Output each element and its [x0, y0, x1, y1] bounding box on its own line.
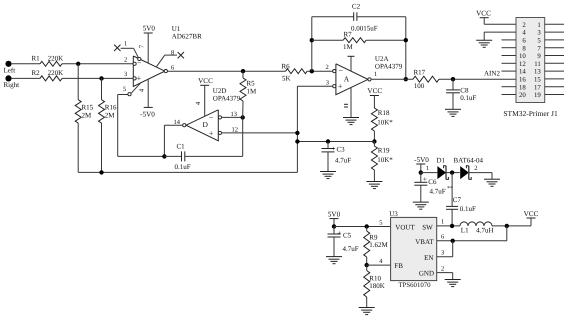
node junction 5V0/C5 [332, 224, 336, 228]
pin 3 of U2A [326, 80, 336, 88]
ground below C8 [445, 109, 461, 116]
capacitor C8 0.1uF [446, 79, 476, 109]
pin 11 stub to ground below U2A [344, 87, 351, 118]
svg-text:5V0: 5V0 [143, 25, 156, 33]
pin 2 of U1 [124, 57, 136, 66]
connector J1 body [516, 18, 545, 103]
svg-text:−: − [209, 113, 214, 122]
svg-text:13: 13 [231, 111, 238, 118]
svg-text:180K: 180K [369, 282, 385, 290]
capacitor C5 4.7uF [328, 227, 359, 257]
diode D1 labels [437, 156, 484, 164]
node junction -5V0/C6 [419, 170, 423, 174]
svg-text:+: + [137, 73, 142, 83]
node junction C8 tap [451, 77, 455, 81]
pin 2 of D1 [474, 165, 477, 172]
connector J1 pin numbers [519, 22, 541, 99]
wire Right to R2 [11, 77, 40, 79]
svg-text:+: + [331, 144, 335, 153]
svg-text:7: 7 [537, 45, 541, 52]
power -5V0 at D1 [414, 156, 429, 173]
svg-text:5: 5 [123, 86, 126, 93]
svg-text:C2: C2 [352, 3, 361, 11]
inductor L1 4.7uH [460, 222, 494, 235]
pin 5 of U3 [379, 219, 382, 226]
wire U2D output down to bias node [164, 125, 182, 156]
power 5V0 bottom [328, 211, 341, 227]
resistor R17 100 [413, 69, 439, 90]
wire VBAT loop [437, 226, 507, 241]
svg-text:SW: SW [422, 223, 433, 231]
svg-text:1: 1 [124, 41, 127, 48]
wire feedback left vertical [311, 17, 313, 71]
svg-text:3: 3 [441, 250, 444, 257]
svg-text:R17: R17 [414, 69, 426, 77]
svg-text:−: − [339, 66, 344, 75]
pin 6 of U3 [441, 234, 445, 241]
pin 2 of U2A [326, 64, 336, 73]
svg-text:OPA4379: OPA4379 [375, 62, 403, 70]
resistor R2 220K [32, 69, 64, 81]
power VCC above R18 [367, 87, 382, 108]
pin 2 of U3 [441, 265, 444, 272]
svg-text:0.1uF: 0.1uF [460, 94, 476, 102]
node junction pin12/rail [295, 131, 299, 135]
wire pin3 to bias rail [297, 85, 332, 87]
svg-text:-5V0: -5V0 [140, 111, 155, 119]
svg-text:2M: 2M [82, 112, 93, 120]
resistor R6 5K [282, 62, 308, 82]
svg-text:2: 2 [124, 57, 127, 64]
svg-text:8: 8 [171, 49, 174, 56]
svg-text:BAT64-04: BAT64-04 [454, 156, 484, 164]
wire C2 left [312, 16, 354, 18]
svg-text:U3: U3 [389, 210, 398, 218]
node Right input terminal [4, 75, 20, 89]
wire U3 GND to ground [437, 273, 453, 280]
node junction pin13/R5 [241, 115, 245, 119]
node junction R7 left [310, 38, 314, 42]
ground below C5 [326, 257, 342, 264]
diode D1a [437, 166, 448, 180]
node junction feedback left [310, 69, 314, 73]
node junction feedback right [404, 77, 408, 81]
svg-text:2: 2 [441, 265, 444, 272]
svg-text:2M: 2M [105, 112, 116, 120]
node junction L1/VBAT [505, 224, 509, 228]
pin 6 of U1 output [164, 65, 175, 73]
svg-text:1: 1 [537, 22, 540, 29]
svg-text:AIN2: AIN2 [484, 70, 500, 78]
svg-text:20: 20 [519, 92, 526, 99]
node junction R9/R10 FB [365, 263, 369, 267]
net label AIN2 [484, 70, 500, 78]
pin 4 of U2D [195, 101, 202, 105]
svg-text:5V0: 5V0 [328, 211, 341, 219]
diode D1b [460, 166, 471, 180]
wire 5V0 to U3 VOUT [334, 226, 391, 228]
svg-text:2: 2 [474, 165, 477, 172]
wire Left to R1 [11, 63, 40, 65]
op-amp U2D labels [213, 87, 241, 102]
resistor R18 10K* [371, 108, 393, 142]
svg-text:10K*: 10K* [377, 119, 393, 127]
svg-text:A: A [344, 75, 350, 84]
wire bottom bias rail [78, 86, 297, 172]
IC U3 TPS601070 body [391, 217, 437, 280]
resistor R1 220K [32, 54, 64, 66]
ground below R19 [366, 182, 382, 189]
pin 8 of U1 no-connect [157, 49, 185, 66]
ground below U2A [343, 118, 359, 125]
svg-text:12: 12 [519, 61, 526, 68]
wire pin12 to bias rail [222, 132, 298, 134]
wire C1 to pin13 node [185, 117, 242, 156]
resistor R7 1M [312, 30, 406, 51]
wire C2 right [357, 16, 406, 18]
svg-text:0.0015uF: 0.0015uF [351, 24, 378, 32]
svg-text:+: + [209, 128, 214, 138]
resistor R16 2M [99, 78, 117, 172]
svg-text:14: 14 [519, 69, 526, 76]
svg-text:2: 2 [522, 22, 526, 29]
op-amp U1 AD627BR triangle [133, 56, 165, 86]
svg-text:4.7uF: 4.7uF [343, 245, 359, 253]
node junction R16/rail [99, 170, 103, 174]
svg-text:6: 6 [441, 234, 445, 241]
node junction C3 tap [326, 139, 330, 143]
pin 12 of U2D [218, 126, 238, 134]
svg-text:VCC: VCC [524, 210, 539, 218]
power -5V0 below U1 [140, 107, 155, 118]
svg-text:15: 15 [534, 77, 541, 84]
svg-text:OPA4379: OPA4379 [213, 95, 241, 103]
svg-text:11: 11 [534, 61, 541, 68]
svg-text:8: 8 [522, 45, 526, 52]
node junction R2/R16 [99, 76, 103, 80]
svg-text:VBAT: VBAT [415, 238, 434, 246]
op-amp U2D OPA4379 triangle [186, 110, 218, 141]
svg-text:D1: D1 [437, 156, 446, 164]
wire -5V0 to D1a [421, 172, 438, 174]
svg-text:R5: R5 [247, 80, 256, 88]
svg-text:GND: GND [419, 270, 434, 278]
svg-text:4: 4 [139, 88, 146, 92]
svg-text:5: 5 [379, 219, 382, 226]
svg-text:3: 3 [326, 80, 329, 87]
ground at J1 pin4 [476, 40, 492, 47]
op-amp U2A labels [375, 55, 403, 70]
wire U1 negative supply [147, 79, 149, 108]
wire D1b to ground [468, 173, 492, 180]
power VCC above U2D [198, 77, 213, 117]
svg-text:EN: EN [424, 254, 433, 262]
svg-text:VCC: VCC [198, 77, 213, 85]
svg-text:R18: R18 [378, 109, 390, 117]
svg-text:220K: 220K [48, 54, 64, 62]
svg-text:AD627BR: AD627BR [172, 33, 202, 41]
pin 13 of U2D [218, 111, 237, 119]
pin 4 of U3 [379, 258, 383, 265]
node junction R9 top [365, 224, 369, 228]
wire J1 pin4 to ground [484, 32, 516, 40]
svg-text:R2: R2 [32, 69, 41, 77]
capacitor C6 4.7uF [414, 173, 453, 203]
resistor R19 10K* [371, 142, 393, 182]
resistor R15 2M [75, 64, 93, 173]
wire U2A output net AIN2 [371, 78, 516, 80]
svg-text:17: 17 [534, 84, 541, 91]
svg-text:1: 1 [441, 219, 444, 226]
svg-text:10: 10 [519, 53, 526, 60]
power VCC above J1 [476, 9, 516, 24]
svg-text:VCC: VCC [476, 9, 491, 17]
wire R6 to U2A pin2 [307, 70, 334, 72]
node junction C7 tap [450, 170, 454, 174]
ground after D1 [484, 179, 500, 186]
svg-text:L1: L1 [461, 227, 469, 235]
pin 1 of D1 [426, 165, 429, 172]
pin 1 of U3 [441, 219, 444, 226]
svg-text:2: 2 [326, 64, 329, 71]
svg-text:C5: C5 [343, 231, 352, 239]
ground below C6 [413, 202, 429, 209]
svg-text:R10: R10 [369, 274, 381, 282]
wire EN to VBAT [437, 241, 453, 257]
svg-text:R1: R1 [32, 54, 41, 62]
svg-text:1.62M: 1.62M [369, 241, 388, 249]
svg-text:1: 1 [374, 71, 377, 78]
svg-text:Right: Right [4, 81, 20, 89]
svg-text:C6: C6 [428, 178, 437, 186]
ground below C3 [320, 172, 336, 179]
svg-text:R6: R6 [282, 62, 291, 70]
op-amp U1 labels [172, 25, 202, 41]
svg-text:0.1uF: 0.1uF [175, 163, 191, 171]
svg-text:1M: 1M [343, 43, 354, 51]
pin 1 of U2A output [368, 71, 377, 81]
svg-text:4: 4 [522, 30, 526, 37]
svg-text:R19: R19 [378, 147, 390, 155]
svg-text:9: 9 [537, 53, 541, 60]
svg-text:C3: C3 [337, 146, 346, 154]
wire L1 to VCC [492, 225, 531, 227]
wire D1a to D1b [446, 172, 460, 174]
wire U1 output to R6 [167, 70, 285, 72]
pin 1 of U1 no-connect [114, 41, 141, 61]
resistor R10 180K [364, 265, 385, 307]
svg-text:12: 12 [232, 126, 239, 133]
capacitor C7 0.1uF [446, 173, 476, 226]
svg-text:+: + [337, 228, 341, 237]
node junction rail/C3 row [295, 139, 299, 143]
node junction R1/R15 [76, 62, 80, 66]
svg-text:+: + [423, 174, 427, 183]
svg-text:7: 7 [139, 44, 146, 48]
svg-text:13: 13 [534, 69, 541, 76]
ground below U3 GND [445, 280, 461, 287]
wire SW to L1 [437, 225, 460, 227]
svg-text:4: 4 [195, 101, 202, 105]
IC U3 pin names [394, 223, 434, 277]
node junction VBAT/EN [451, 239, 455, 243]
svg-text:19: 19 [534, 92, 541, 99]
svg-text:3: 3 [124, 71, 127, 78]
wire bias node to C1 [164, 155, 181, 157]
pin 3 of U3 [441, 250, 444, 257]
svg-text:220K: 220K [48, 69, 64, 77]
svg-text:VOUT: VOUT [395, 223, 415, 231]
svg-text:Left: Left [4, 67, 16, 75]
capacitor C2 0.0015uF [351, 3, 378, 33]
svg-text:R15: R15 [82, 103, 94, 111]
pin 14 of U2D output [174, 119, 186, 127]
svg-text:C1: C1 [177, 143, 186, 151]
capacitor C3 4.7uF [322, 142, 352, 172]
svg-text:3: 3 [537, 30, 541, 37]
svg-text:STM32-Primer J1: STM32-Primer J1 [503, 109, 558, 118]
IC U3 labels [389, 210, 431, 289]
wire C3 row [297, 141, 374, 143]
svg-text:18: 18 [519, 84, 526, 91]
wire pin13 to R5 bottom [222, 116, 243, 118]
svg-text:VCC: VCC [367, 87, 382, 95]
svg-text:0.1uF: 0.1uF [460, 205, 476, 213]
svg-text:C7: C7 [453, 196, 462, 204]
power VCC at L1 [524, 210, 539, 226]
wire R1 to U1 pin2 [62, 63, 133, 65]
svg-text:5: 5 [537, 38, 541, 45]
svg-text:TPS601070: TPS601070 [398, 282, 431, 289]
svg-text:16: 16 [519, 77, 526, 84]
connector J1 label [503, 109, 558, 118]
capacitor C1 0.1uF [175, 143, 191, 171]
svg-text:R7: R7 [344, 30, 353, 38]
op-amp U2A OPA4379 triangle [336, 64, 368, 95]
wire R2 to U1 pin3 [62, 77, 133, 79]
svg-text:1M: 1M [247, 88, 258, 96]
wire feedback right vertical [405, 17, 407, 79]
svg-text:5K: 5K [282, 75, 291, 83]
svg-text:+: + [338, 81, 343, 91]
svg-text:FB: FB [394, 262, 403, 270]
pin 3 of U1 [124, 71, 136, 80]
svg-text:1: 1 [426, 165, 429, 172]
svg-text:4: 4 [379, 258, 383, 265]
node junction U2D out/C1/pin5 [162, 154, 166, 158]
resistor R9 1.62M [364, 227, 389, 266]
ground below R10 [359, 308, 375, 315]
pin 4 of U1 [139, 88, 146, 92]
pin 7 of U1 [139, 44, 146, 48]
svg-text:100: 100 [414, 82, 425, 90]
svg-text:4.7uH: 4.7uH [476, 227, 493, 235]
svg-text:D: D [203, 120, 209, 129]
svg-text:R16: R16 [105, 103, 117, 111]
svg-text:4.7uF: 4.7uF [335, 157, 351, 165]
node junction R7 right [404, 38, 408, 42]
connector J1 pin stubs [502, 24, 565, 94]
wire U1 pin5 to bias node [118, 95, 165, 157]
pin 5 of U1 [118, 83, 141, 96]
svg-text:-5V0: -5V0 [414, 156, 429, 164]
svg-text:6: 6 [171, 65, 175, 72]
svg-text:4.7uF: 4.7uF [430, 188, 446, 196]
svg-text:10K*: 10K* [377, 156, 393, 164]
resistor R5 1M [240, 71, 257, 117]
power stub above U2A [348, 56, 355, 71]
node Left input terminal [4, 61, 16, 75]
node junction SW/C7 [450, 224, 454, 228]
svg-text:6: 6 [522, 38, 526, 45]
node junction R5 top [241, 69, 245, 73]
wire FB to U3 [367, 264, 391, 266]
node junction R18/R19 [372, 139, 376, 143]
power 5V0 above U1 [143, 25, 156, 64]
